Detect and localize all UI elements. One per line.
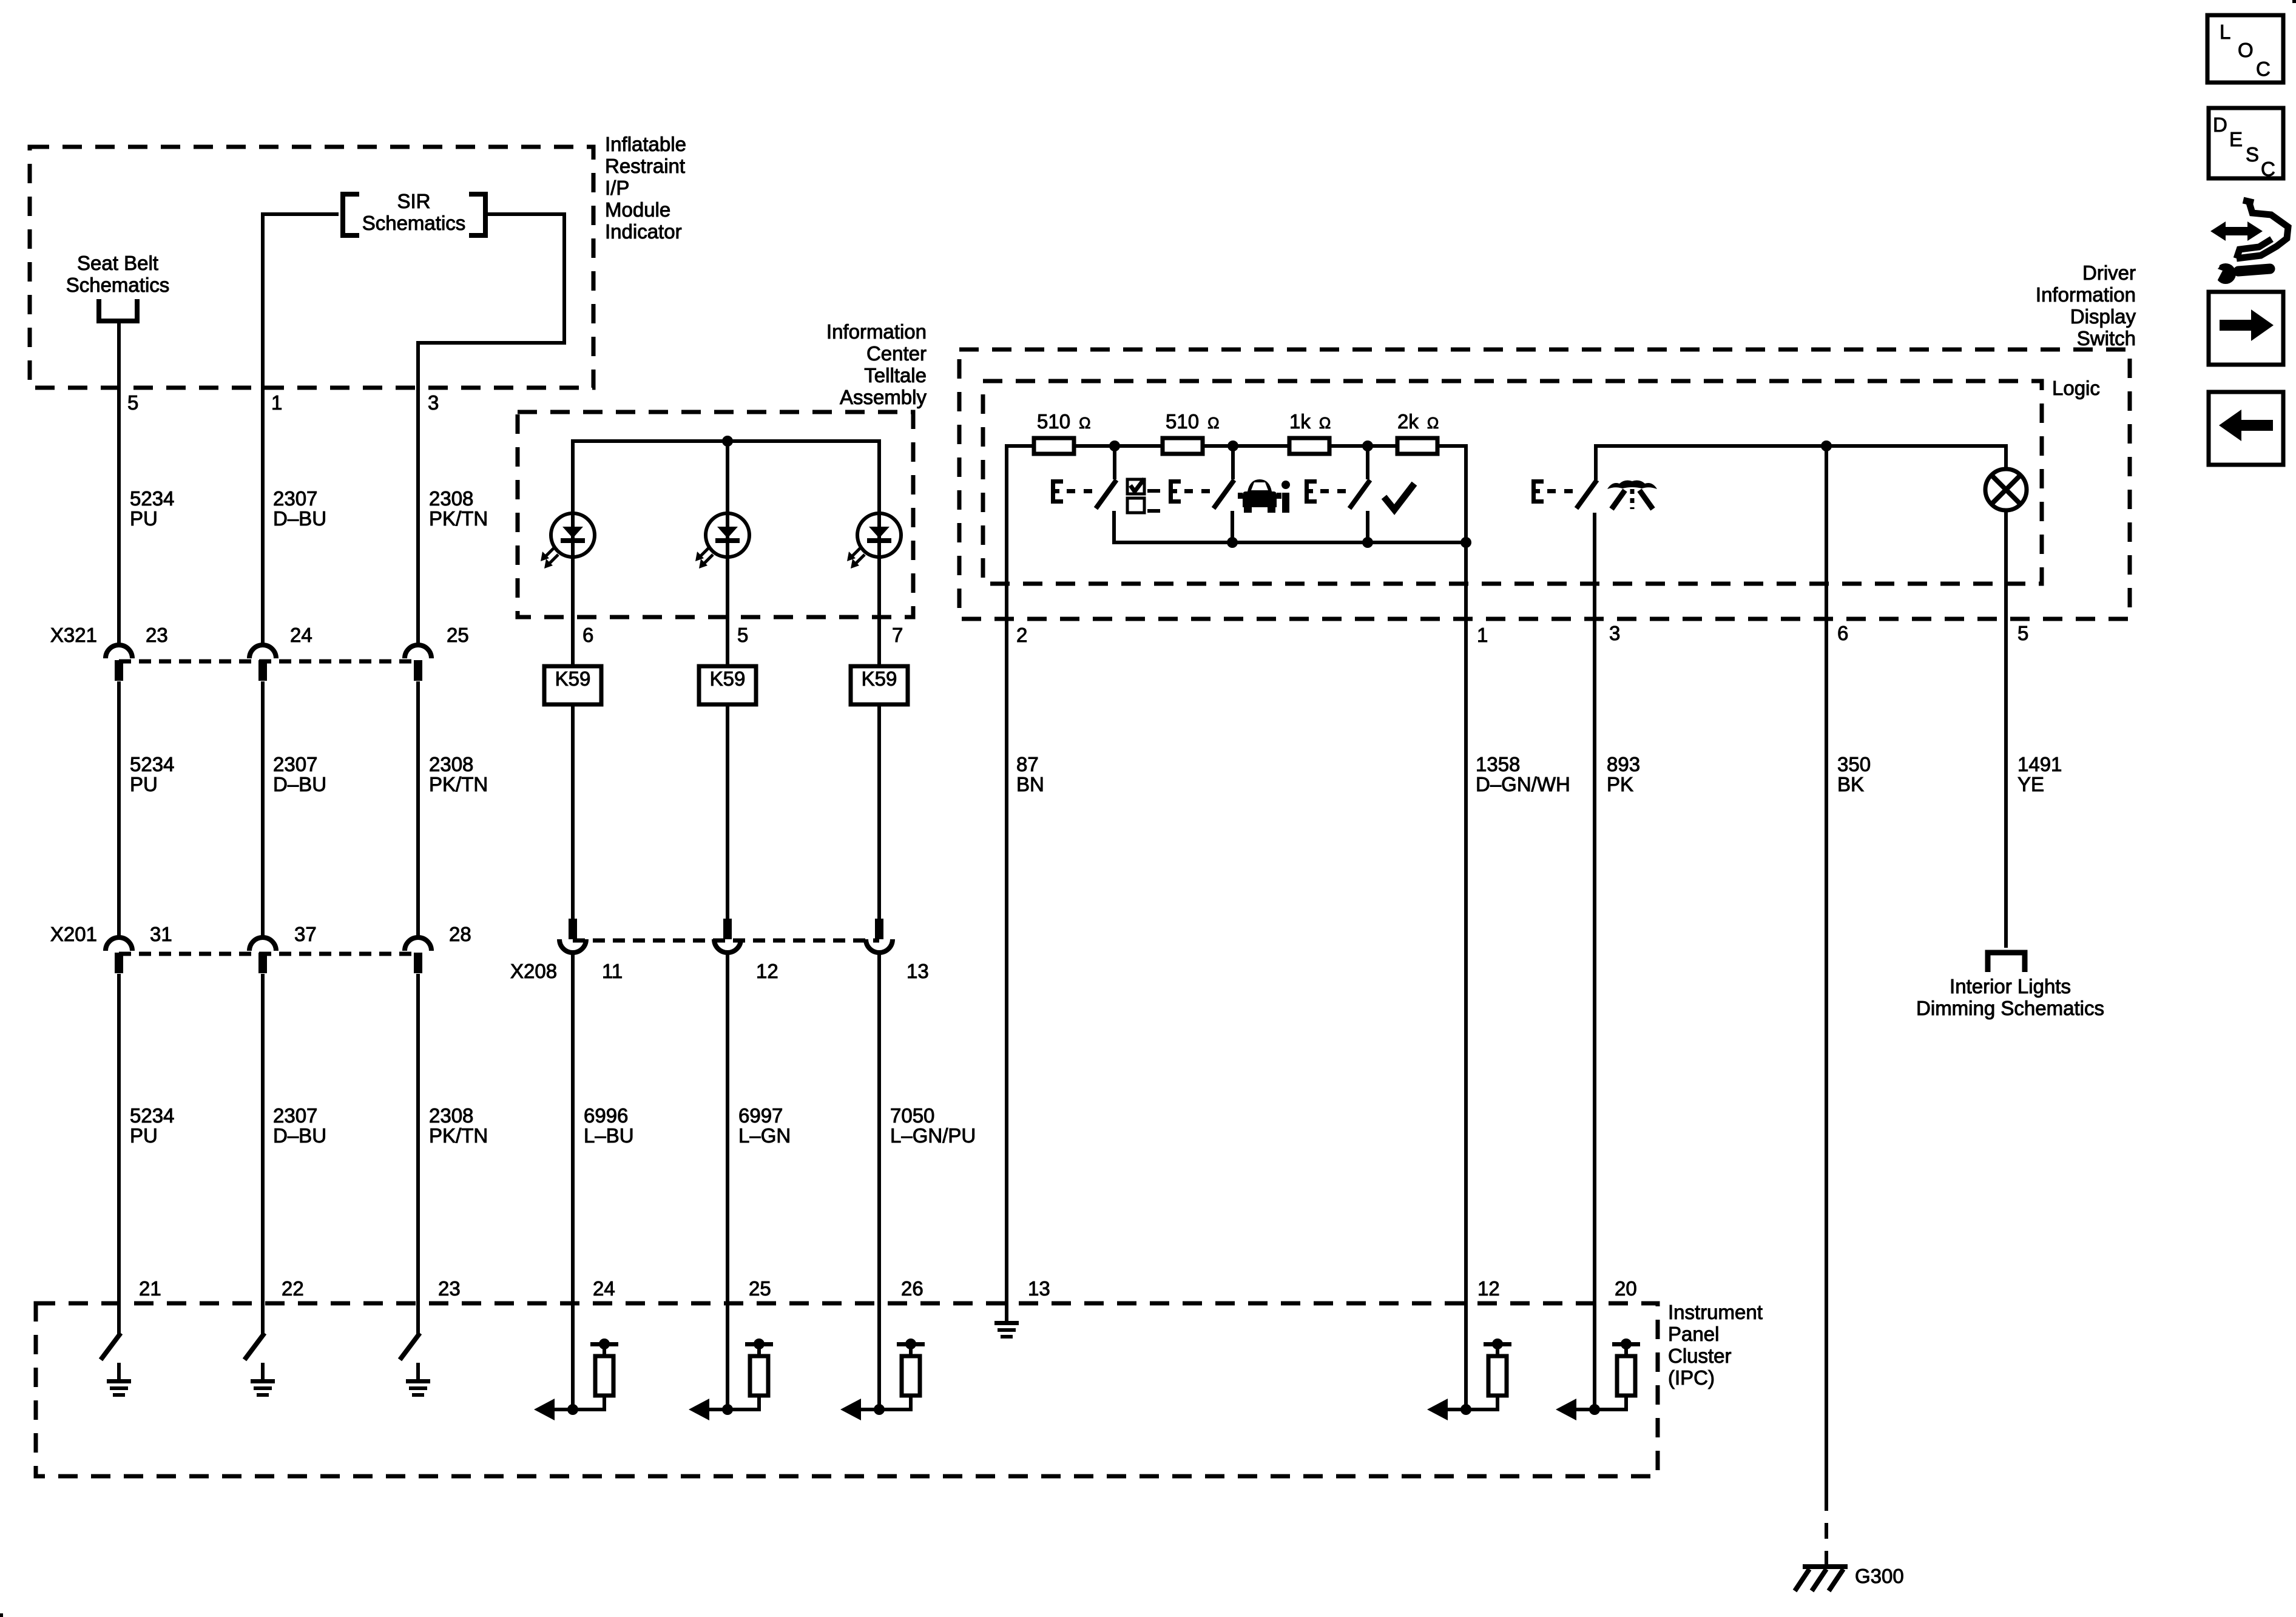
wire W9 switch S4 output	[1593, 513, 1596, 1303]
wire W10 drop	[1825, 444, 1828, 1495]
svg-text:5: 5	[737, 624, 748, 646]
wire W8 ladder output riser	[1464, 444, 1468, 1303]
connector X321 cavity 23 (W1)	[106, 645, 132, 658]
switch S2 actuator E	[1169, 479, 1173, 504]
svg-text:26: 26	[901, 1277, 923, 1300]
wire W6 LED3 to K59	[877, 535, 881, 666]
wire W5 lower segment	[726, 954, 729, 1303]
connector X208 cavity 12 (W5)	[723, 919, 732, 939]
svg-text:3: 3	[428, 391, 439, 414]
connector X321 dashed gang line	[119, 660, 418, 664]
wire W7 top riser	[1005, 444, 1008, 1303]
switch S3 bottom branch	[1366, 511, 1369, 544]
wire W2 mid segment	[261, 681, 265, 936]
LED telltale 2	[706, 513, 749, 557]
svg-text:1: 1	[271, 391, 282, 414]
switch S3 blade	[1349, 480, 1370, 508]
wire W6 K59 to X208	[877, 704, 881, 921]
svg-text:X321: X321	[50, 624, 97, 646]
telltale common bus wire	[573, 439, 879, 443]
svg-text:7: 7	[892, 624, 903, 646]
svg-text:1kΩ: 1kΩ	[1289, 410, 1331, 433]
wire W5 K59 to X208	[726, 704, 729, 921]
svg-text:C: C	[2256, 58, 2271, 80]
wire W2 rise to SIR tab	[261, 212, 265, 645]
resistor ladder top bus	[1007, 444, 1466, 448]
wire W5 LED2 feed	[726, 441, 729, 535]
wire W1 lower segment	[117, 974, 121, 1303]
IPC internal ground (W7)	[1005, 1303, 1008, 1321]
svg-text:S: S	[2246, 143, 2259, 166]
off-page tab: SIR Schematics right bracket	[469, 194, 485, 235]
svg-text:6: 6	[1837, 622, 1848, 644]
svg-text:5: 5	[2017, 622, 2028, 644]
IPC input arrow + resistor (W5)	[726, 1303, 729, 1409]
wire W11 lamp output	[2004, 510, 2008, 948]
svg-text:K59: K59	[555, 667, 591, 690]
svg-text:6: 6	[582, 624, 593, 646]
wire W4 LED1 to K59	[571, 535, 575, 666]
svg-text:31: 31	[150, 923, 172, 945]
switch S4 actuator E	[1531, 479, 1536, 504]
node: output junction W8	[1460, 537, 1471, 548]
svg-text:25: 25	[447, 624, 469, 646]
svg-text:X201: X201	[50, 923, 97, 945]
node: tap after R3	[1362, 441, 1373, 451]
wire W5 LED2 to K59	[726, 535, 729, 666]
nav icon: DESC box	[2209, 108, 2283, 178]
icon: trip odometer reset (S4 function)	[1607, 481, 1657, 489]
module box: Driver Information Display Switch (outer dashed)	[959, 349, 2130, 619]
svg-text:X208: X208	[510, 960, 557, 982]
switch S3 top branch	[1366, 446, 1369, 479]
switch S4 top branch to lamp bus	[1596, 446, 2006, 480]
node: tap after R1	[1109, 441, 1120, 451]
svg-text:L: L	[2220, 21, 2230, 43]
connector X201 cavity 28 (W3)	[405, 937, 431, 951]
svg-text:11: 11	[602, 960, 623, 982]
wire W6 lower segment	[877, 954, 881, 1303]
switch S1 blade	[1096, 480, 1116, 508]
svg-text:2kΩ: 2kΩ	[1397, 410, 1439, 433]
svg-text:2: 2	[1016, 624, 1027, 646]
connector X321 cavity 24 (W2)	[249, 645, 276, 658]
switch S2 bottom branch	[1231, 511, 1234, 544]
svg-text:Logic: Logic	[2052, 377, 2100, 399]
off-page tab: SIR Schematics left bracket	[343, 194, 359, 235]
IPC input arrow + resistor (W6)	[877, 1303, 881, 1409]
svg-text:6997L–GN: 6997L–GN	[738, 1104, 791, 1147]
wire from SIR tab to W3	[418, 214, 564, 343]
LED telltale 1 (seat belt indicator)	[551, 513, 595, 557]
wire W2 lower segment	[261, 974, 265, 1303]
svg-text:510Ω: 510Ω	[1166, 410, 1220, 433]
IPC switch to ground (W3)	[416, 1303, 420, 1334]
resistor R2 510 ohm	[1163, 438, 1203, 454]
wire W6 LED3 feed	[877, 439, 881, 535]
IPC switch to ground (W2)	[261, 1303, 265, 1334]
svg-text:21: 21	[139, 1277, 161, 1300]
IPC switch to ground (W1)	[117, 1303, 121, 1334]
svg-text:510Ω: 510Ω	[1037, 410, 1091, 433]
connector X208 cavity 11 (W4)	[569, 919, 577, 939]
wire W10 dashed splice to ground	[1825, 1495, 1828, 1565]
off-page tab: Seat Belt Schematics bracket	[99, 299, 137, 321]
illumination lamp	[1985, 469, 2027, 510]
svg-text:13: 13	[1028, 1277, 1050, 1300]
switch lower bus	[1114, 541, 1466, 544]
svg-text:C: C	[2261, 158, 2275, 180]
switch S2 top branch	[1231, 446, 1235, 479]
svg-text:12: 12	[1477, 1277, 1500, 1300]
module box: Instrument Panel Cluster IPC (dashed)	[36, 1303, 1658, 1476]
switch S1 actuator E	[1051, 479, 1055, 504]
switch S1 top branch	[1113, 446, 1116, 479]
LED telltale 3	[857, 513, 901, 557]
wire W3 mid segment	[416, 681, 420, 936]
icon: check mark (S3 function)	[1384, 484, 1414, 510]
svg-text:O: O	[2238, 39, 2254, 61]
svg-text:G300: G300	[1855, 1565, 1904, 1587]
svg-text:3: 3	[1609, 622, 1620, 644]
IPC input arrow + resistor (W9)	[1593, 1303, 1596, 1409]
node: S2 lower junction	[1227, 537, 1238, 548]
svg-text:28: 28	[449, 923, 471, 945]
svg-text:23: 23	[146, 624, 168, 646]
IPC input arrow + resistor (W8)	[1464, 1303, 1468, 1409]
switch S4 blade	[1576, 480, 1597, 508]
node: telltale bus junction	[722, 436, 733, 447]
off-page tab: Interior Lights Dimming Schematics bracket	[1988, 953, 2025, 972]
page corner mark top-right	[2292, 0, 2296, 3]
svg-text:1: 1	[1477, 624, 1488, 646]
svg-text:6996L–BU: 6996L–BU	[584, 1104, 634, 1147]
node: lamp bus junction (W10)	[1821, 441, 1832, 451]
ground G300 chassis symbol	[1803, 1564, 1848, 1569]
node: tap after R2	[1227, 441, 1238, 451]
module box: Information Center Telltale Assembly (dashed)	[518, 412, 913, 617]
svg-text:13: 13	[907, 960, 929, 982]
nav icon: back (left arrow) box	[2209, 392, 2283, 465]
switch S3 actuator E	[1305, 479, 1309, 504]
page corner mark bottom-left	[0, 1613, 3, 1617]
wire W3 drop (inside module box)	[416, 341, 420, 645]
icon: checklist (S1 function)	[1127, 479, 1144, 494]
wire W4 lower segment	[571, 954, 575, 1303]
svg-text:E: E	[2229, 128, 2243, 150]
module box: Logic (inner dashed)	[983, 381, 2042, 584]
resistor R4 2k ohm	[1397, 438, 1437, 454]
wire W1 seat-belt drop (inside module box)	[117, 321, 121, 645]
svg-text:5: 5	[127, 391, 138, 414]
icon: vehicle information (S2 function)	[1243, 479, 1277, 507]
svg-text:K59: K59	[862, 667, 897, 690]
nav icon: LOC box	[2207, 15, 2283, 83]
svg-text:K59: K59	[710, 667, 746, 690]
svg-text:25: 25	[749, 1277, 771, 1300]
switch S2 blade	[1214, 480, 1234, 508]
svg-text:D: D	[2213, 113, 2227, 136]
svg-text:12: 12	[756, 960, 778, 982]
wire W4 K59 to X208	[571, 704, 575, 921]
svg-text:22: 22	[282, 1277, 304, 1300]
resistor R1 510 ohm	[1034, 438, 1074, 454]
svg-text:24: 24	[593, 1277, 615, 1300]
lamp driver K59 (W4)	[544, 666, 601, 704]
wire W3 lower segment	[416, 974, 420, 1303]
svg-text:37: 37	[294, 923, 317, 945]
connector X201 cavity 37 (W2)	[249, 937, 276, 951]
switch S1 bottom branch	[1112, 511, 1116, 544]
node: S3 lower junction	[1362, 537, 1373, 548]
lamp driver K59 (W5)	[699, 666, 756, 704]
connector X208 dashed gang line	[573, 939, 879, 943]
svg-text:20: 20	[1615, 1277, 1637, 1300]
module box: Inflatable Restraint I/P Module Indicator (dashed)	[30, 147, 593, 388]
resistor R3 1k ohm	[1289, 438, 1329, 454]
nav icon: adjust/repair (double arrow and wrench)	[2210, 221, 2263, 241]
IPC input arrow + resistor (W4)	[571, 1303, 575, 1409]
lamp driver K59 (W6)	[851, 666, 908, 704]
connector X201 cavity 31 (W1)	[106, 937, 132, 951]
connector X208 cavity 13 (W6)	[875, 919, 883, 939]
nav icon: next (right arrow) box	[2209, 292, 2283, 365]
connector X201 dashed gang line	[119, 952, 418, 956]
wire W4 LED1 feed	[571, 439, 575, 535]
svg-text:Seat BeltSchematics: Seat BeltSchematics	[66, 252, 170, 296]
svg-text:24: 24	[290, 624, 312, 646]
wire W1 mid segment	[117, 681, 121, 936]
svg-text:23: 23	[438, 1277, 461, 1300]
connector X321 cavity 25 (W3)	[405, 645, 431, 658]
